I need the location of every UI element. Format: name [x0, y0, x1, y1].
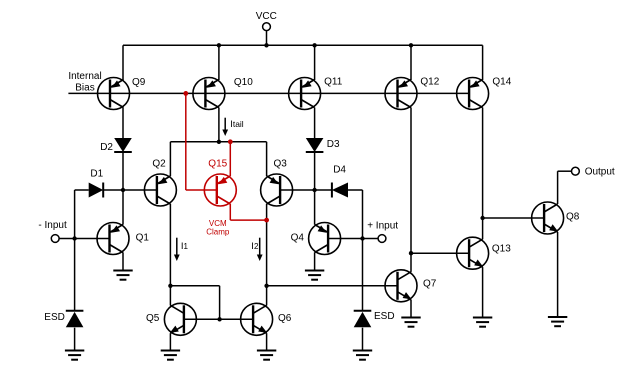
node dot Q3 collector / Q6 / Q7 base — [264, 284, 268, 288]
wire Q11 emitter lead — [314, 45, 316, 80]
wire node C to Q13 base — [411, 252, 469, 254]
svg-text:Clamp: Clamp — [206, 228, 230, 237]
current arrow I2 — [259, 238, 261, 256]
wire Q7 collector lead — [410, 253, 412, 272]
wire Q13 collector lead — [482, 218, 484, 239]
transistor Q13 — [457, 237, 489, 269]
wire Q6 collector node to Q7 base — [267, 285, 398, 287]
transistor Q1 — [97, 223, 129, 255]
wire Q15 emitter lead (red) — [229, 142, 231, 176]
transistor Q5 — [164, 303, 196, 335]
svg-text:Q2: Q2 — [152, 158, 166, 169]
svg-text:VCC: VCC — [256, 11, 277, 22]
svg-text:Q12: Q12 — [420, 76, 439, 87]
svg-text:Itail: Itail — [230, 119, 244, 130]
wire Q14 emitter lead — [482, 45, 484, 80]
node D dot Q14/Q13 collectors / Q8 base — [480, 216, 484, 220]
transistor Q11 — [289, 78, 321, 110]
wire Q2 emitter lead — [169, 142, 171, 176]
terminal plus input — [378, 235, 386, 243]
wire node D to Q8 base — [483, 217, 544, 219]
svg-text:+ Input: + Input — [367, 221, 398, 232]
wire Q8 emitter lead — [557, 232, 559, 317]
wire plus-input to ESD diode — [362, 239, 364, 311]
wire down to Q5/Q6 base rail — [219, 286, 221, 320]
wire Q13 emitter lead — [482, 267, 484, 317]
transistor Q4 — [309, 223, 341, 255]
svg-text:Internal: Internal — [68, 71, 101, 82]
wire Q8 collector lead — [557, 171, 559, 204]
terminal output — [572, 167, 580, 175]
wire Q10 emitter lead — [218, 45, 220, 80]
node dot bias rail / Q15 base (red) — [183, 91, 188, 96]
transistor Q8 — [532, 202, 564, 234]
diode D1 — [89, 183, 104, 198]
node dot tail rail / Q10 collector — [217, 140, 221, 144]
wire Q6 emitter lead — [266, 333, 268, 350]
wire Q8 collector to output terminal — [558, 170, 572, 172]
svg-text:Q5: Q5 — [146, 313, 160, 324]
wire Q5 collector to base (diode connection) — [170, 285, 219, 287]
svg-text:Q10: Q10 — [234, 77, 253, 88]
wire Q12 collector lead — [410, 108, 412, 254]
wire minus-input to Q1 base — [59, 238, 110, 240]
svg-text:Q6: Q6 — [278, 313, 292, 324]
wire plus-input riser — [362, 190, 364, 239]
transistor Q7 — [385, 270, 417, 302]
wire red horizontal to Q15 base bar — [186, 189, 217, 191]
svg-text:- Input: - Input — [38, 220, 67, 231]
svg-text:Q3: Q3 — [274, 158, 288, 169]
wire Q4 emitter lead — [314, 190, 316, 225]
wire Q10 collector lead — [218, 108, 220, 142]
ground (Q5) — [161, 351, 180, 360]
wire top VCC rail — [123, 44, 483, 46]
svg-text:Q8: Q8 — [566, 212, 580, 223]
svg-text:Q4: Q4 — [291, 232, 305, 243]
wire Q5 base to Q6 base — [184, 318, 253, 320]
wire Q1 collector lead — [122, 252, 124, 270]
ground (Q7) — [401, 318, 420, 327]
wire Q7 emitter lead — [410, 300, 412, 318]
svg-text:ESD: ESD — [44, 312, 65, 323]
svg-text:D3: D3 — [327, 139, 340, 150]
transistor Q2 — [144, 174, 176, 206]
svg-text:Q9: Q9 — [132, 77, 146, 88]
svg-text:Q13: Q13 — [492, 244, 511, 255]
svg-text:D4: D4 — [333, 165, 346, 176]
wire Q14 collector lead — [482, 108, 484, 219]
wire VCM clamp to Q3 collector (red) — [230, 219, 266, 221]
svg-text:Q1: Q1 — [136, 232, 150, 243]
svg-text:ESD: ESD — [374, 311, 395, 322]
node dot VCC rail / Q11 — [312, 43, 316, 47]
wire Q9 collector to D2 — [122, 108, 124, 139]
ground (Q1) — [113, 271, 132, 280]
terminal VCC — [263, 23, 271, 31]
wire D4 anode to corner — [348, 189, 363, 191]
wire D3 cathode to node B — [314, 152, 316, 190]
wire Q3 base to node B — [280, 189, 315, 191]
diode D2 — [114, 138, 132, 152]
wire left ESD diode to ground — [74, 328, 76, 351]
wire Q4 collector lead — [314, 252, 316, 270]
node dot Q5/Q6 base rail — [217, 317, 221, 321]
svg-text:Q15: Q15 — [208, 158, 227, 169]
svg-text:Bias: Bias — [75, 83, 94, 94]
transistor Q14 — [457, 78, 489, 110]
transistor Q10 — [193, 78, 225, 110]
transistor Q12 — [385, 78, 417, 110]
node B dot D3/D4/Q3/Q4 — [312, 188, 316, 192]
current arrow Itail — [224, 118, 226, 131]
wire Q1 emitter lead — [122, 190, 124, 225]
node dot tail rail / Q15 emitter (red) — [228, 139, 233, 144]
diode D4 — [332, 183, 348, 198]
node dot VCC rail / Q12 — [409, 43, 413, 47]
ground (Q4) — [305, 271, 324, 280]
svg-text:I1: I1 — [181, 241, 189, 252]
ground (left ESD) — [65, 351, 84, 360]
node C dot Q12/Q7 collectors / Q13 base — [409, 251, 413, 255]
wire D2 cathode to node A — [122, 152, 124, 190]
node dot Q2 collector / Q5 — [168, 284, 172, 288]
wire internal bias rail — [68, 92, 469, 94]
wire minus-input to ESD diode — [74, 239, 76, 311]
svg-text:D1: D1 — [90, 169, 103, 180]
diode ESD right — [354, 310, 372, 312]
wire node B to D4 cathode — [315, 189, 332, 191]
current arrow I1 — [176, 238, 178, 256]
wire Q3 collector to Q6 collector — [266, 204, 268, 306]
wire tail rail — [170, 141, 266, 143]
svg-text:Output: Output — [585, 167, 615, 178]
terminal minus input — [51, 235, 59, 243]
node dot VCC rail / Q10 — [217, 43, 221, 47]
wire Q4 base to plus-input node — [328, 238, 378, 240]
wire minus-input riser to D1 — [74, 190, 76, 239]
svg-text:Q7: Q7 — [423, 278, 437, 289]
svg-text:Q11: Q11 — [324, 76, 343, 87]
transistor Q6 — [241, 303, 273, 335]
ground (Q6) — [257, 351, 276, 360]
transistor Q15 (VCM clamp) — [204, 174, 236, 206]
wire Q5 emitter lead — [169, 333, 171, 350]
node dot VCM clamp / Q3 collector (red) — [264, 218, 269, 223]
diode ESD left — [66, 310, 84, 312]
svg-text:D2: D2 — [100, 142, 113, 153]
transistor Q3 — [261, 174, 293, 206]
wire D1 anode — [75, 189, 89, 191]
node dot minus input — [72, 236, 76, 240]
wire Q15 base from bias rail (red) — [185, 93, 187, 190]
ground (Q8) — [548, 317, 567, 326]
wire Q2 collector to Q5 collector — [169, 204, 171, 306]
wire D1 cathode to node A and Q2 base — [103, 189, 157, 191]
svg-text:I2: I2 — [251, 241, 259, 252]
node dot VCC rail / VCC stem — [264, 43, 268, 47]
wire Q11 collector to D3 — [314, 108, 316, 139]
ground (Q13) — [473, 318, 492, 327]
wire Q15 collector lead (red) — [229, 204, 231, 220]
ground (right ESD) — [353, 351, 372, 360]
wire VCC stem — [266, 30, 268, 45]
node dot plus input — [360, 236, 364, 240]
wire Q12 emitter lead — [410, 45, 412, 80]
svg-text:Q14: Q14 — [492, 76, 511, 87]
wire Q9 emitter lead — [122, 45, 124, 80]
node A dot D1/D2/Q1/Q2 — [121, 188, 125, 192]
transistor Q9 — [98, 78, 130, 110]
wire Q3 emitter lead — [266, 142, 268, 176]
wire right ESD diode to ground — [362, 328, 364, 351]
diode D3 — [306, 138, 324, 152]
